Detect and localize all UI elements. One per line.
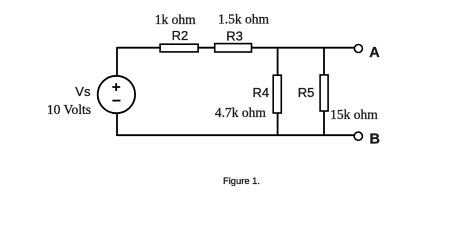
svg-text:B: B: [370, 131, 380, 147]
wire: bottom horizontal from Vs to terminal B: [117, 134, 355, 136]
svg-text:1k ohm: 1k ohm: [155, 12, 196, 27]
svg-text:R5: R5: [298, 85, 315, 100]
resistor R4: [273, 75, 281, 113]
voltage source Vs circle: [98, 76, 135, 113]
resistor R3: [215, 44, 252, 52]
svg-text:1.5k ohm: 1.5k ohm: [218, 12, 270, 27]
wire: left vertical bottom (Vs bottom lead): [116, 113, 118, 136]
wire: R5 branch vertical: [323, 48, 325, 136]
svg-text:Figure 1.: Figure 1.: [223, 175, 260, 186]
wire: top horizontal from Vs to terminal A: [117, 47, 355, 49]
svg-text:R4: R4: [253, 85, 270, 100]
svg-text:R2: R2: [172, 28, 189, 43]
svg-text:R3: R3: [226, 28, 243, 43]
svg-text:4.7k ohm: 4.7k ohm: [215, 105, 267, 120]
resistor R5: [320, 75, 328, 111]
svg-text:Vs: Vs: [75, 84, 91, 99]
svg-text:A: A: [369, 45, 380, 61]
svg-text:10 Volts: 10 Volts: [47, 102, 91, 117]
terminal node A circle: [354, 45, 362, 53]
wire: R4 branch vertical: [277, 48, 279, 136]
svg-text:15k ohm: 15k ohm: [330, 107, 378, 122]
voltage source plus sign: [112, 83, 120, 91]
wire: left vertical top (Vs top lead): [116, 47, 118, 77]
voltage source minus sign: [112, 100, 120, 102]
resistor R2: [160, 44, 198, 52]
terminal node B circle: [354, 132, 362, 140]
